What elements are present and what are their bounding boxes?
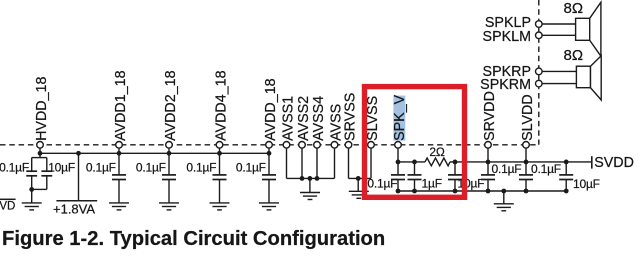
pin SRVSS (open terminal on IC edge) <box>345 142 352 149</box>
wire AVSS1 pin stub <box>286 148 288 178</box>
wire AVSS4 pin stub <box>316 148 318 178</box>
junction C1 bottom / ground tap <box>29 187 34 192</box>
wire C1/C2 bottom tie <box>32 188 47 190</box>
junction AVDD4_18 node <box>217 151 222 156</box>
svg-text:0.1µF: 0.1µF <box>236 160 266 174</box>
svg-text:AVDD_18: AVDD_18 <box>263 78 279 141</box>
junction AVDD2_18 node <box>167 151 172 156</box>
svg-text:SRVDD: SRVDD <box>482 91 498 141</box>
junction C10 bottom <box>486 189 491 194</box>
wire AVSS pin stub <box>334 148 336 178</box>
svg-text:10µF: 10µF <box>48 160 75 174</box>
ground (AVSS group) <box>300 193 320 200</box>
svg-text:SPK_V: SPK_V <box>392 94 408 141</box>
pin AVDD1_18 (open terminal on IC edge) <box>116 142 123 149</box>
svg-text:10µF: 10µF <box>573 177 600 191</box>
svg-text:10µF: 10µF <box>458 176 485 190</box>
svg-text:0.1µF: 0.1µF <box>86 160 116 174</box>
svg-text:8Ω: 8Ω <box>564 47 584 64</box>
wire bottom tie rail <box>398 190 566 192</box>
ground (AVDD1_18 column) <box>109 203 129 210</box>
capacitor C9 10uF (SPK_V) <box>448 162 462 191</box>
capacitor C1 0.1uF (HVDD_18) <box>26 158 37 190</box>
junction AVSS2 <box>300 176 305 181</box>
junction C8 top <box>412 160 417 165</box>
wire SRVSS pin stub <box>348 148 350 178</box>
wire ground stub <box>309 178 311 192</box>
speaker LS1 8ohm (left) <box>576 2 601 56</box>
junction AVSS ground tap <box>308 176 313 181</box>
wire SPKLP to speaker LS1 <box>542 23 576 25</box>
svg-text:VD: VD <box>0 201 15 213</box>
wire AVDD2_18 pin stub <box>168 148 170 153</box>
svg-text:HVDD_18: HVDD_18 <box>34 76 50 140</box>
junction SRVSS ground tap <box>356 176 361 181</box>
IC U1 boundary (dashed outline, bottom edge) <box>0 144 539 146</box>
svg-text:0.1µF: 0.1µF <box>367 176 397 190</box>
wire C1/C2 top tie <box>32 157 47 159</box>
wire VDD bus <box>40 152 269 154</box>
svg-text:8Ω: 8Ω <box>564 0 584 17</box>
wire SPKRM to speaker LS2 <box>542 83 576 85</box>
annotation red highlight box around SLVSS/SPK_V <box>365 87 465 198</box>
wire ground stub <box>31 189 33 203</box>
pin SPKRP (open terminal on IC edge) <box>536 68 543 75</box>
svg-text:SRVSS: SRVSS <box>342 93 358 141</box>
wire ground stub <box>503 191 505 204</box>
capacitor C11 0.1uF (SLVDD) <box>519 162 533 191</box>
junction +1.8VA tap <box>76 151 81 156</box>
speaker LS2 8ohm (right) <box>576 56 601 100</box>
resistor R1 2ohm <box>425 158 450 166</box>
svg-text:0.1µF: 0.1µF <box>0 160 29 174</box>
pin AVSS1 (open terminal on IC edge) <box>283 142 290 149</box>
svg-text:AVSS4: AVSS4 <box>311 96 327 141</box>
wire SPK_V pin stub <box>397 148 399 162</box>
wire ground stub <box>357 178 359 191</box>
pin SRVDD (open terminal on IC edge) <box>485 142 492 149</box>
node SVDD terminal tick <box>591 156 593 168</box>
pin SPKRM (open terminal on IC edge) <box>536 80 543 87</box>
junction AVDD1_18 node <box>117 151 122 156</box>
wire AVSS2 pin stub <box>301 148 303 178</box>
pin SPK_V (open terminal on IC edge) <box>395 142 402 149</box>
svg-text:SPKLM: SPKLM <box>483 29 531 45</box>
pin AVDD4_18 (open terminal on IC edge) <box>216 142 223 149</box>
svg-text:AVSS2: AVSS2 <box>296 96 312 141</box>
junction SLVDD node <box>524 160 529 165</box>
pin SPKLP (open terminal on IC edge) <box>536 21 543 28</box>
wire SPKRP to speaker LS2 <box>542 70 576 72</box>
capacitor C2 10uF (HVDD_18) <box>41 158 52 190</box>
pin HVDD_18 (open terminal on IC edge) <box>37 142 44 149</box>
pin SLVSS (open terminal on IC edge) <box>368 142 375 149</box>
junction HVDD_18 node <box>38 151 43 156</box>
svg-text:SLVSS: SLVSS <box>365 96 381 141</box>
pin AVDD2_18 (open terminal on IC edge) <box>166 142 173 149</box>
wire SLVDD pin stub <box>525 148 527 162</box>
junction SRVDD node <box>486 160 491 165</box>
svg-text:AVSS1: AVSS1 <box>280 96 296 141</box>
junction AVSS4 <box>315 176 320 181</box>
capacitor C5 0.1uF (AVDD4_18) <box>213 153 227 203</box>
ground (HVDD column) <box>22 203 42 210</box>
wire SPKLM to speaker LS1 <box>542 34 576 36</box>
junction C12 bottom <box>564 189 569 194</box>
svg-text:0.1µF: 0.1µF <box>492 162 522 176</box>
node SPK_V selection highlight <box>393 96 405 141</box>
ground (AVDD2_18 column) <box>159 203 179 210</box>
svg-text:SLVDD: SLVDD <box>520 94 536 141</box>
capacitor C8 1uF (SPK_V) <box>408 162 422 191</box>
capacitor C12 10uF (SVDD) <box>559 162 573 191</box>
svg-text:0.1µF: 0.1µF <box>531 162 561 176</box>
junction SPK_V node <box>396 160 401 165</box>
svg-text:0.1µF: 0.1µF <box>136 160 166 174</box>
junction C9 top <box>453 160 458 165</box>
wire HVDD node drop <box>39 153 41 157</box>
junction ground tap <box>501 189 506 194</box>
wire AVDD_18 pin stub <box>268 148 270 153</box>
ground (SRVSS/SLVSS) <box>349 191 369 198</box>
junction AVDD_18 node <box>267 151 272 156</box>
wire SRVSS-SLVSS tie <box>349 177 372 179</box>
power rail VD (clipped at image edge) <box>0 198 16 200</box>
svg-text:1µF: 1µF <box>422 176 442 190</box>
capacitor C10 0.1uF (SRVDD) <box>481 162 495 191</box>
wire AVSS tie <box>287 177 335 179</box>
svg-text:Figure 1-2. Typical Circuit Co: Figure 1-2. Typical Circuit Configuratio… <box>2 228 385 250</box>
junction C11 bottom <box>524 189 529 194</box>
svg-text:SPKRM: SPKRM <box>480 77 531 93</box>
junction C8 bottom <box>412 189 417 194</box>
svg-text:0.1µF: 0.1µF <box>186 160 216 174</box>
svg-text:AVDD4_18: AVDD4_18 <box>213 70 229 141</box>
junction C7 bottom <box>396 189 401 194</box>
svg-text:AVDD2_18: AVDD2_18 <box>163 70 179 141</box>
wire SLVSS pin stub <box>370 148 372 178</box>
wire AVDD1_18 pin stub <box>118 148 120 153</box>
svg-text:AVDD1_18: AVDD1_18 <box>113 70 129 141</box>
svg-text:+1.8VA: +1.8VA <box>53 202 95 217</box>
capacitor C7 0.1uF (SPK_V) <box>391 162 405 191</box>
wire SVDD rail <box>450 161 592 163</box>
wire HVDD_18 pin stub <box>39 148 41 153</box>
power rail +1.8VA <box>56 153 97 200</box>
svg-text:2Ω: 2Ω <box>429 145 444 159</box>
pin SPKLM (open terminal on IC edge) <box>536 32 543 39</box>
capacitor C6 0.1uF (AVDD_18) <box>262 153 276 203</box>
wire AVDD4_18 pin stub <box>219 148 221 153</box>
pin AVDD_18 (open terminal on IC edge) <box>266 142 273 149</box>
ground (SVDD group) <box>494 204 514 211</box>
junction C9 bottom <box>453 189 458 194</box>
pin SLVDD (open terminal on IC edge) <box>523 142 530 149</box>
pin AVSS (open terminal on IC edge) <box>331 142 338 149</box>
capacitor C3 0.1uF (AVDD1_18) <box>112 153 126 203</box>
junction C12 top <box>564 160 569 165</box>
ground (AVDD4_18 column) <box>210 203 230 210</box>
svg-text:SVDD: SVDD <box>594 155 634 171</box>
capacitor C4 0.1uF (AVDD2_18) <box>162 153 176 203</box>
wire SRVDD pin stub <box>487 148 489 162</box>
IC U1 boundary (dashed outline, right edge) <box>538 0 540 145</box>
pin AVSS2 (open terminal on IC edge) <box>299 142 306 149</box>
wire SPK_V to R1 <box>398 161 425 163</box>
pin AVSS4 (open terminal on IC edge) <box>314 142 321 149</box>
ground (AVDD_18 column) <box>259 203 279 210</box>
